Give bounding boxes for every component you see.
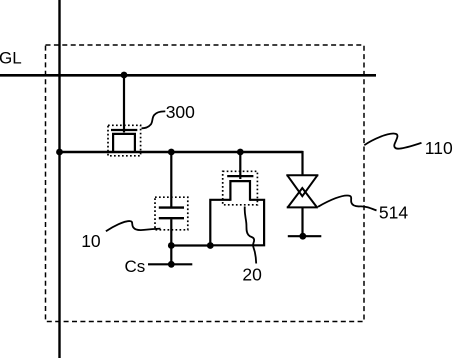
junction at diode terminal — [299, 233, 306, 240]
leader line for 10 — [106, 221, 161, 231]
svg-text:300: 300 — [166, 102, 195, 122]
svg-text:20: 20 — [242, 264, 262, 284]
dotted outline around capacitor 10 — [155, 197, 188, 230]
diode 514 (bidirectional diode symbol) — [286, 175, 318, 207]
leader line for 110 — [364, 134, 421, 149]
transistor 300 (TFT symbol) — [111, 130, 137, 152]
svg-text:10: 10 — [81, 231, 101, 251]
Cs terminal bar — [148, 263, 192, 265]
leader line for 300 — [142, 111, 166, 128]
gate line GL (horizontal wire) — [0, 74, 376, 77]
svg-text:110: 110 — [425, 138, 453, 158]
junction at capacitor branch — [168, 149, 175, 156]
svg-text:GL: GL — [0, 49, 22, 68]
data line (vertical signal wire) — [58, 0, 60, 358]
wire from capacitor 10 bottom plate to Cs terminal — [170, 219, 172, 264]
dotted outline around transistor of element 20 — [223, 171, 258, 205]
wire from node wire down to diode 514 — [301, 151, 303, 175]
transistor of element 20 (TFT symbol) — [227, 176, 253, 201]
wire from node to gate of transistor in element 20 — [239, 152, 241, 179]
junction at transistor 20 gate branch — [237, 149, 244, 156]
junction at capacitor/element-20 bottom node — [168, 242, 175, 249]
leader line for 514 — [318, 195, 377, 210]
wire from GL to gate of transistor 300 — [123, 75, 125, 132]
capacitor 10 (storage capacitor) — [159, 208, 184, 219]
dotted outline around transistor 300 — [108, 125, 141, 156]
element 20 body outline — [210, 200, 264, 246]
main node wire (drain bus from data line to diode branch) — [60, 151, 303, 153]
junction at Cs terminal — [168, 261, 175, 268]
svg-text:514: 514 — [379, 202, 408, 222]
leader line for 20 — [245, 207, 257, 264]
diode terminal bar — [288, 235, 322, 237]
svg-text:Cs: Cs — [125, 257, 146, 276]
junction on GL at gate branch — [121, 72, 128, 79]
wire from node to capacitor 10 top plate — [170, 152, 172, 207]
wire from bottom node to element 20 — [171, 244, 210, 246]
junction at element 20 lower-left corner — [207, 242, 214, 249]
wire from diode 514 to terminal — [301, 207, 303, 236]
pixel region 110 dashed boundary — [46, 45, 365, 322]
junction at data line and node wire — [56, 149, 63, 156]
